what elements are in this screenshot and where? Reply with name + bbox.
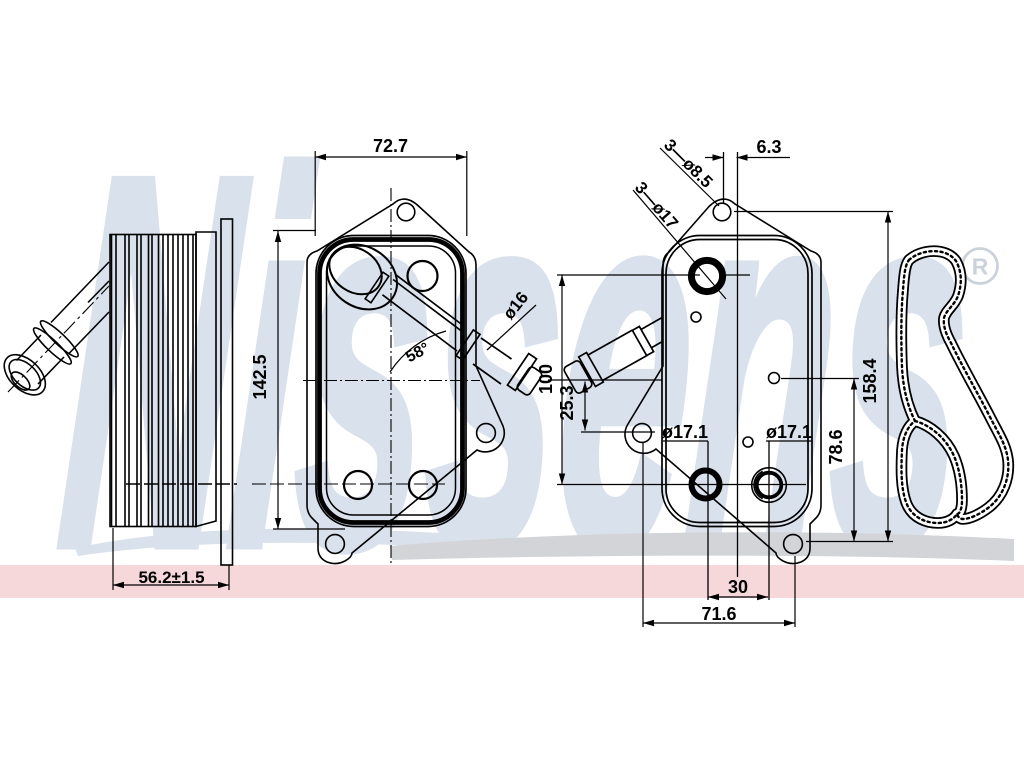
gasket outer band bbox=[901, 251, 1008, 523]
cooler body (front view) bbox=[316, 236, 466, 527]
pipe (front view) bbox=[383, 275, 544, 397]
svg-text:158.4: 158.4 bbox=[860, 358, 880, 403]
label 3-d8.5 with leader bbox=[660, 148, 719, 206]
pipe centerline bbox=[8, 286, 109, 392]
svg-text:71.6: 71.6 bbox=[701, 604, 736, 624]
svg-text:ø17.1: ø17.1 bbox=[662, 422, 708, 442]
dimension 71.6 bbox=[643, 443, 795, 627]
svg-text:30: 30 bbox=[728, 577, 748, 597]
mounting plate (front view) bbox=[307, 199, 504, 563]
pipe tip tube edges bbox=[17, 335, 65, 384]
pipe (rear view) bbox=[563, 317, 663, 394]
dimension 72.7 bbox=[315, 151, 467, 236]
stack centerline bbox=[126, 483, 237, 485]
dimension 56.2±1.5 bbox=[113, 528, 229, 590]
watermark gray swoosh bbox=[390, 532, 1014, 561]
end bar bbox=[221, 219, 233, 565]
svg-text:142.5: 142.5 bbox=[250, 354, 270, 399]
58 degree arc bbox=[390, 331, 446, 372]
small bolt holes rear view bbox=[691, 312, 780, 447]
watermark Nissens script bbox=[48, 66, 985, 659]
gasket inner branch band bbox=[915, 421, 962, 514]
svg-text:25.3: 25.3 bbox=[557, 385, 577, 420]
plate bottom-left tab hole bbox=[326, 535, 345, 554]
pipe flange (front view) bbox=[315, 231, 410, 322]
dimension 30 bbox=[708, 596, 768, 598]
inlet pipe (side view) bbox=[51, 262, 109, 354]
view centerlines bbox=[252, 188, 480, 565]
oil port bottom-right counterbore bbox=[752, 468, 787, 503]
oil port ring top (3-d17) bbox=[691, 260, 722, 291]
svg-text:72.7: 72.7 bbox=[373, 136, 408, 156]
svg-text:100: 100 bbox=[536, 364, 556, 394]
label diameter 16 with leader bbox=[487, 305, 536, 350]
svg-text:78.6: 78.6 bbox=[826, 429, 846, 464]
end plate bbox=[196, 232, 216, 527]
tab holes bbox=[784, 535, 803, 554]
pipe end flange bbox=[0, 347, 53, 403]
dimension 142.5 bbox=[273, 231, 345, 530]
pink band bbox=[0, 565, 1024, 598]
pipe ferrule rings bbox=[37, 317, 82, 360]
apex hole bbox=[713, 203, 731, 221]
svg-text:R: R bbox=[972, 254, 989, 280]
svg-text:6.3: 6.3 bbox=[756, 137, 781, 157]
plate fins bbox=[112, 235, 194, 527]
dimension 25.3 bbox=[581, 382, 655, 433]
mounting plate (rear view) bbox=[625, 199, 821, 563]
oil port ring bottom-left bbox=[692, 471, 720, 499]
body bolt holes bbox=[344, 261, 438, 499]
registered trademark symbol bbox=[963, 249, 998, 284]
dimension 6.3 bbox=[705, 157, 790, 159]
labels d17.1 with leaders bbox=[663, 440, 812, 442]
cooler body outline (rear view) bbox=[662, 236, 812, 527]
label 3-d17 with leader bbox=[633, 190, 726, 299]
dimension 100 bbox=[561, 275, 563, 485]
dimension 78.6 bbox=[781, 379, 859, 542]
plate right tab hole bbox=[477, 424, 496, 443]
dimension 158.4 bbox=[734, 212, 893, 542]
stack of cooler plates (side view) bbox=[110, 235, 196, 527]
rear view centerlines bbox=[548, 152, 806, 600]
svg-text:ø17.1: ø17.1 bbox=[766, 422, 812, 442]
watermark blue underline bbox=[75, 529, 520, 556]
svg-text:56.2±1.5: 56.2±1.5 bbox=[138, 568, 204, 587]
plate apex hole bbox=[397, 203, 415, 221]
